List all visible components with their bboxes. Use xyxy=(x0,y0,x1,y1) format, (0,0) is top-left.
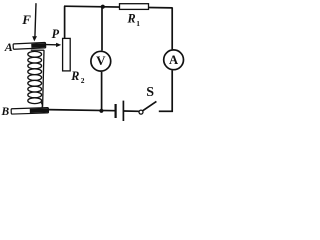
node bottom junction xyxy=(99,109,103,113)
wire bottom right stub xyxy=(159,110,173,112)
svg-text:V: V xyxy=(96,53,106,68)
battery long plate xyxy=(122,101,124,121)
switch S pivot xyxy=(139,110,143,114)
node top junction xyxy=(101,5,105,9)
svg-text:R: R xyxy=(127,12,136,26)
svg-text:P: P xyxy=(52,27,60,41)
resistor R1 xyxy=(120,4,149,10)
rod A xyxy=(13,42,46,49)
wire voltmeter top lead xyxy=(101,7,103,51)
force arrow F head xyxy=(32,36,37,41)
svg-text:F: F xyxy=(21,12,31,27)
spring coils xyxy=(28,51,43,107)
ammeter A xyxy=(164,50,184,70)
svg-text:A: A xyxy=(4,40,13,54)
wire right vertical lower xyxy=(171,70,173,112)
svg-text:2: 2 xyxy=(81,76,85,85)
slider arrow P shaft xyxy=(46,44,57,46)
battery short plate xyxy=(114,104,116,118)
wire right vertical upper xyxy=(171,8,173,50)
rod B xyxy=(11,108,48,114)
svg-text:1: 1 xyxy=(136,19,140,28)
wire left drop to R2 xyxy=(64,6,66,39)
rheostat R2 xyxy=(63,38,71,71)
spring top bracket xyxy=(31,49,44,51)
svg-text:A: A xyxy=(169,53,178,67)
wire voltmeter bottom lead xyxy=(101,72,103,111)
switch S lever xyxy=(143,101,157,110)
svg-text:B: B xyxy=(1,106,10,118)
svg-text:S: S xyxy=(146,85,154,100)
svg-text:R: R xyxy=(70,69,79,83)
slider arrow P head xyxy=(56,43,61,47)
wire bottom left section xyxy=(48,110,115,111)
wire battery to switch xyxy=(124,110,139,112)
wire top horizontal xyxy=(64,6,173,8)
force arrow F shaft xyxy=(35,3,36,37)
voltmeter V xyxy=(91,51,111,71)
spring guide line xyxy=(43,50,44,107)
